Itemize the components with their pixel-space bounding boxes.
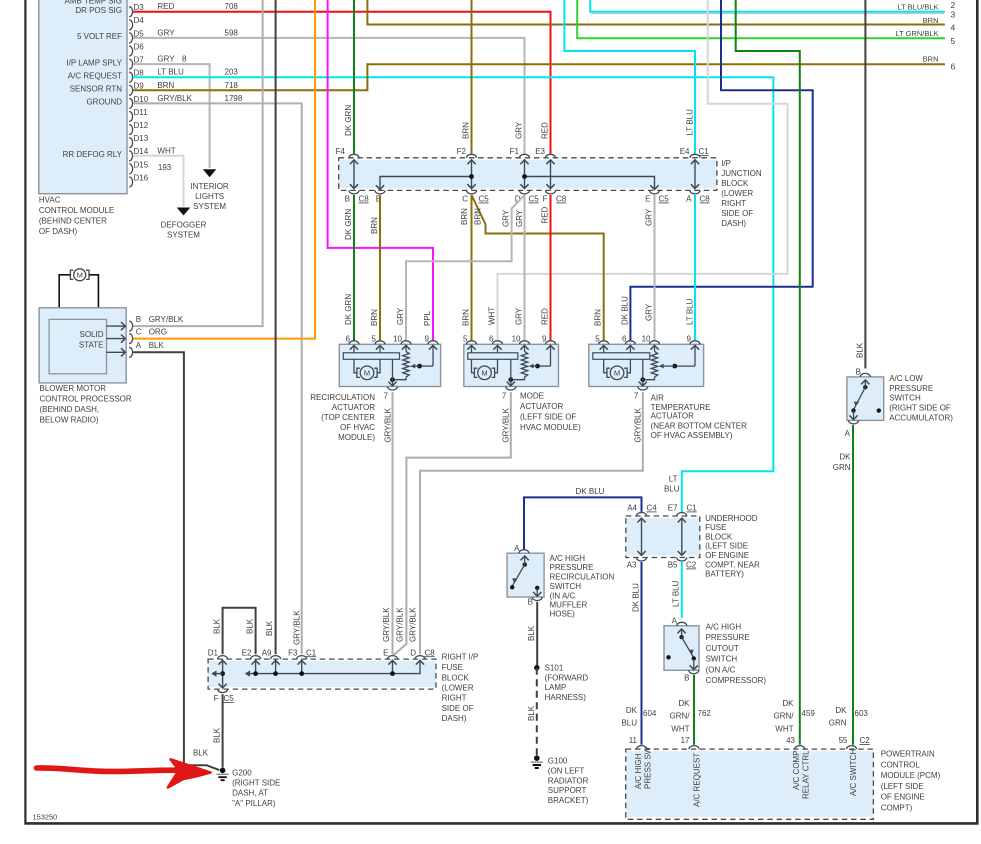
- svg-text:D4: D4: [134, 16, 145, 25]
- svg-text:LT GRN/BLK: LT GRN/BLK: [895, 29, 938, 38]
- svg-text:MODULE): MODULE): [338, 433, 375, 442]
- HVAC module caption: [39, 196, 114, 237]
- svg-text:INTERIOR: INTERIOR: [190, 182, 228, 191]
- svg-text:C1: C1: [687, 504, 698, 513]
- svg-text:9: 9: [425, 334, 430, 343]
- svg-text:PRESS SW: PRESS SW: [644, 746, 653, 789]
- svg-text:BLK: BLK: [212, 727, 221, 743]
- svg-text:CUTOUT: CUTOUT: [706, 644, 739, 653]
- wire BLK (D1 to E2 jumper): [212, 608, 255, 654]
- splice S101: [534, 665, 539, 670]
- svg-text:RIGHT: RIGHT: [442, 694, 467, 703]
- svg-text:A/C HIGH: A/C HIGH: [706, 623, 742, 632]
- svg-text:604: 604: [643, 709, 657, 718]
- defogger system label: [161, 221, 207, 240]
- svg-text:ORG: ORG: [149, 328, 167, 337]
- svg-text:DASH): DASH): [721, 219, 746, 228]
- underhood fuse block: [626, 513, 700, 562]
- svg-text:7: 7: [384, 392, 389, 401]
- ground G100: [531, 755, 543, 768]
- recirc switch pin labels: [514, 544, 533, 607]
- svg-text:6: 6: [951, 62, 956, 72]
- svg-text:GRY/BLK: GRY/BLK: [382, 607, 391, 642]
- svg-text:203: 203: [225, 68, 239, 77]
- svg-text:LT BLU: LT BLU: [685, 109, 694, 136]
- svg-text:D6: D6: [134, 42, 145, 51]
- svg-text:(RIGHT SIDE OF: (RIGHT SIDE OF: [889, 404, 951, 413]
- svg-text:GRY/BLK: GRY/BLK: [383, 407, 392, 442]
- svg-text:RADIATOR: RADIATOR: [548, 777, 589, 786]
- svg-text:B5: B5: [668, 561, 678, 570]
- wire BLK (fuse block F-C5 to ground G200): [212, 694, 222, 767]
- svg-text:WHT: WHT: [157, 146, 175, 155]
- svg-text:UNDERHOOD: UNDERHOOD: [705, 514, 758, 523]
- svg-text:C8: C8: [556, 195, 567, 204]
- svg-text:DK GRN: DK GRN: [344, 209, 353, 240]
- svg-text:M: M: [77, 271, 83, 280]
- svg-text:F3: F3: [288, 648, 298, 657]
- svg-text:A3: A3: [627, 561, 637, 570]
- svg-text:7: 7: [502, 392, 507, 401]
- svg-text:D13: D13: [134, 134, 149, 143]
- fuse block top pin labels: [208, 648, 436, 657]
- svg-text:GRY: GRY: [157, 28, 175, 37]
- svg-text:1798: 1798: [225, 94, 243, 103]
- svg-text:BRN: BRN: [594, 309, 603, 326]
- svg-text:DK: DK: [626, 706, 638, 715]
- G100 caption: [548, 757, 589, 806]
- svg-text:STATE: STATE: [79, 340, 104, 349]
- svg-text:DR POS SIG: DR POS SIG: [75, 6, 122, 15]
- interior lights system label: [190, 182, 228, 211]
- svg-text:SIDE OF: SIDE OF: [442, 704, 474, 713]
- svg-text:PRESSURE: PRESSURE: [550, 563, 594, 572]
- wire DK BLU (top to air temp actuator pin 6): [620, 0, 812, 341]
- svg-text:GRY: GRY: [514, 307, 523, 325]
- svg-text:HARNESS): HARNESS): [545, 693, 587, 702]
- svg-text:GRY: GRY: [644, 208, 653, 226]
- svg-text:F4: F4: [336, 147, 346, 156]
- blower processor caption: [40, 384, 132, 425]
- svg-text:55: 55: [839, 736, 848, 745]
- svg-text:2: 2: [951, 0, 956, 10]
- junction block bottom pin labels: [345, 195, 711, 204]
- PCM caption: [881, 750, 941, 813]
- svg-text:M: M: [481, 369, 487, 378]
- svg-text:BLK: BLK: [855, 342, 864, 358]
- svg-text:C2: C2: [686, 561, 697, 570]
- svg-text:(BEHIND DASH,: (BEHIND DASH,: [40, 405, 100, 414]
- svg-text:M: M: [364, 369, 370, 378]
- right I/P fuse block: [208, 656, 436, 693]
- svg-text:C5: C5: [479, 195, 490, 204]
- svg-text:CONTROL: CONTROL: [881, 761, 921, 770]
- ground G200: [216, 768, 228, 781]
- wire DK GRN 603 (low pressure switch A to PCM pin 55): [833, 425, 853, 745]
- HVAC control module U1 (connector block): [39, 0, 127, 194]
- svg-text:BRACKET): BRACKET): [548, 796, 589, 805]
- blower motor M1: [59, 269, 98, 320]
- junction block caption: [721, 159, 762, 228]
- low pressure switch pin labels: [845, 368, 861, 439]
- svg-text:D11: D11: [134, 108, 149, 117]
- svg-text:9: 9: [542, 334, 547, 343]
- svg-text:BRN: BRN: [462, 122, 471, 139]
- svg-text:459: 459: [802, 709, 816, 718]
- HVAC connector pins D3-D16: [129, 3, 149, 187]
- svg-text:D1: D1: [208, 648, 219, 657]
- svg-text:GRY: GRY: [502, 209, 511, 227]
- PCM pin labels: [629, 736, 871, 745]
- svg-text:A: A: [672, 617, 678, 626]
- svg-text:A/C SWITCH: A/C SWITCH: [849, 749, 858, 796]
- svg-text:LT: LT: [669, 474, 678, 483]
- svg-text:AMB TEMP SIG: AMB TEMP SIG: [65, 0, 123, 6]
- svg-text:SUPPORT: SUPPORT: [548, 786, 587, 795]
- svg-text:HOSE): HOSE): [550, 610, 576, 619]
- svg-text:C8: C8: [700, 195, 711, 204]
- svg-text:OF DASH): OF DASH): [39, 227, 78, 236]
- svg-text:GROUND: GROUND: [86, 98, 122, 107]
- svg-text:43: 43: [786, 736, 795, 745]
- svg-text:MODE: MODE: [520, 392, 544, 401]
- wire BRN (C-C5 to air temp pin 5): [472, 195, 604, 341]
- svg-text:DK: DK: [782, 699, 794, 708]
- svg-text:GRY/BLK: GRY/BLK: [157, 94, 192, 103]
- wire DK GRN 762 (cutout switch B to PCM pin 17): [693, 675, 695, 745]
- svg-text:RIGHT I/P: RIGHT I/P: [442, 652, 479, 661]
- wire GRY (E-C5 to air temp pin 10): [644, 195, 654, 341]
- svg-text:10: 10: [642, 334, 651, 343]
- A/C high pressure recirculation switch S1: [507, 550, 544, 601]
- svg-text:RELAY CTRL: RELAY CTRL: [801, 750, 810, 799]
- wire BRN (top to junction block F2): [462, 0, 472, 154]
- svg-text:D12: D12: [134, 121, 149, 130]
- svg-text:17: 17: [681, 736, 690, 745]
- svg-text:GRY: GRY: [157, 55, 175, 64]
- svg-text:COMPT, NEAR: COMPT, NEAR: [705, 560, 760, 569]
- blower processor pin labels: [136, 315, 184, 350]
- wire BLK (blower A to G200): [133, 352, 219, 770]
- svg-text:WHT: WHT: [488, 307, 497, 325]
- svg-text:PRESSURE: PRESSURE: [706, 633, 750, 642]
- svg-text:BLOCK: BLOCK: [721, 179, 749, 188]
- svg-text:SWITCH: SWITCH: [550, 582, 582, 591]
- svg-text:(LEFT SIDE: (LEFT SIDE: [705, 542, 748, 551]
- svg-text:CONTROL MODULE: CONTROL MODULE: [39, 206, 114, 215]
- svg-text:193: 193: [158, 163, 172, 172]
- svg-text:3: 3: [951, 10, 956, 20]
- svg-text:DEFOGGER: DEFOGGER: [161, 221, 207, 230]
- svg-text:RR DEFOG RLY: RR DEFOG RLY: [63, 150, 123, 159]
- air temperature actuator (motor + potentiometer): [589, 334, 704, 400]
- fuse block caption: [442, 652, 479, 723]
- svg-text:SYSTEM: SYSTEM: [167, 230, 200, 239]
- svg-text:SWITCH: SWITCH: [706, 655, 738, 664]
- svg-text:GRY/BLK: GRY/BLK: [502, 407, 511, 442]
- svg-text:A/C LOW: A/C LOW: [889, 374, 923, 383]
- svg-text:HVAC: HVAC: [39, 196, 61, 205]
- svg-text:598: 598: [225, 28, 239, 37]
- label GRY above F1: [514, 121, 523, 139]
- svg-text:BRN: BRN: [370, 309, 379, 326]
- right edge wire labels and line numbers: [895, 0, 955, 72]
- svg-text:762: 762: [698, 709, 712, 718]
- wire WHT 193 (D14 to defogger): [133, 146, 190, 215]
- svg-text:LAMP: LAMP: [545, 683, 567, 692]
- svg-text:(ON LEFT: (ON LEFT: [548, 767, 585, 776]
- svg-text:FUSE: FUSE: [442, 663, 463, 672]
- svg-text:GRN: GRN: [829, 719, 847, 728]
- svg-text:DK BLU: DK BLU: [576, 487, 605, 496]
- svg-text:10: 10: [512, 334, 521, 343]
- svg-text:6: 6: [346, 334, 351, 343]
- svg-text:BRN: BRN: [460, 208, 469, 225]
- svg-text:6: 6: [489, 334, 494, 343]
- svg-text:BLK: BLK: [149, 341, 165, 350]
- mode actuator (motor + potentiometer): [463, 334, 558, 400]
- svg-text:"A" PILLAR): "A" PILLAR): [232, 799, 276, 808]
- svg-text:DASH, AT: DASH, AT: [232, 789, 268, 798]
- svg-text:5 VOLT REF: 5 VOLT REF: [77, 32, 122, 41]
- svg-text:A4: A4: [627, 504, 637, 513]
- svg-text:DK: DK: [835, 706, 847, 715]
- svg-text:SOLID: SOLID: [79, 330, 103, 339]
- svg-text:COMPRESSOR): COMPRESSOR): [706, 676, 767, 685]
- blower motor control processor (solid state module): [39, 308, 132, 383]
- svg-text:BLK: BLK: [245, 618, 254, 634]
- svg-text:C8: C8: [359, 195, 370, 204]
- wire GRY/BLK (blower B to top): [133, 0, 263, 326]
- wire BRN (top to right edge 4): [367, 0, 945, 25]
- svg-text:153250: 153250: [33, 813, 58, 822]
- svg-text:ACTUATOR: ACTUATOR: [651, 412, 694, 421]
- svg-text:OF HVAC ASSEMBLY): OF HVAC ASSEMBLY): [651, 431, 733, 440]
- powertrain control module (PCM): [626, 746, 874, 820]
- svg-text:DK BLU: DK BLU: [620, 296, 629, 325]
- svg-text:A/C REQUEST: A/C REQUEST: [692, 753, 701, 807]
- svg-text:E: E: [645, 195, 650, 204]
- svg-text:B: B: [684, 674, 689, 683]
- svg-text:GRN: GRN: [833, 463, 851, 472]
- svg-text:SIDE OF: SIDE OF: [721, 209, 753, 218]
- svg-text:BLOCK: BLOCK: [442, 673, 470, 682]
- label RED above E3: [541, 122, 550, 139]
- air temperature actuator caption: [651, 393, 748, 439]
- label LT BLU above E7: [664, 474, 680, 493]
- svg-text:DK GRN: DK GRN: [344, 294, 353, 325]
- svg-text:BRN: BRN: [370, 217, 379, 234]
- svg-text:FUSE: FUSE: [705, 523, 726, 532]
- svg-text:C1: C1: [699, 147, 710, 156]
- svg-text:F2: F2: [457, 147, 467, 156]
- svg-text:BRN: BRN: [157, 81, 174, 90]
- wire DK GRN/WHT 459 (top to PCM pin 43): [736, 0, 800, 745]
- svg-text:BLU: BLU: [621, 719, 637, 728]
- svg-text:C5: C5: [659, 195, 670, 204]
- svg-text:OF ENGINE: OF ENGINE: [881, 792, 925, 801]
- svg-text:A: A: [514, 544, 520, 553]
- svg-text:6: 6: [622, 334, 627, 343]
- G200 caption: [232, 768, 280, 808]
- svg-text:7: 7: [634, 392, 639, 401]
- svg-text:C: C: [462, 195, 468, 204]
- svg-text:M: M: [614, 369, 620, 378]
- svg-text:MODULE (PCM): MODULE (PCM): [881, 771, 941, 780]
- svg-text:MUFFLER: MUFFLER: [550, 600, 588, 609]
- svg-text:ACTUATOR: ACTUATOR: [332, 403, 375, 412]
- wire DK BLU (A3 to PCM pin 11): [631, 562, 641, 745]
- svg-text:C5: C5: [529, 195, 540, 204]
- svg-text:RECIRCULATION: RECIRCULATION: [310, 393, 375, 402]
- recirculation actuator caption: [310, 393, 375, 442]
- wire DK BLU (recirc switch A to underhood A4): [524, 487, 642, 549]
- svg-text:GRY/BLK: GRY/BLK: [149, 315, 184, 324]
- svg-text:G200: G200: [232, 768, 252, 777]
- svg-text:E7: E7: [668, 504, 678, 513]
- svg-text:E4: E4: [680, 147, 690, 156]
- svg-text:RED: RED: [541, 122, 550, 139]
- PCM wire labels: [621, 699, 868, 733]
- svg-text:A: A: [686, 195, 692, 204]
- wire GRY 8 (D7 to interior lights): [133, 55, 216, 178]
- svg-text:ACCUMULATOR): ACCUMULATOR): [889, 413, 953, 422]
- diagram id label 153250: [33, 813, 58, 822]
- wire LT BLU (top to junction block E4): [564, 0, 695, 154]
- PCM internal signal labels (rotated): [634, 746, 858, 807]
- svg-text:RECIRCULATION: RECIRCULATION: [550, 573, 615, 582]
- svg-text:C8: C8: [425, 648, 436, 657]
- recirculation actuator (motor + potentiometer): [339, 334, 440, 400]
- svg-text:WHT: WHT: [775, 725, 793, 734]
- wire LT BLU (B5 to cutout switch A): [672, 562, 682, 618]
- svg-text:E2: E2: [242, 648, 252, 657]
- mode actuator caption: [520, 392, 581, 433]
- wire GRY/BLK 1798 (D10 to fuse block F3): [133, 94, 302, 654]
- svg-text:718: 718: [225, 81, 239, 90]
- svg-text:E: E: [383, 648, 388, 657]
- svg-text:C: C: [136, 328, 142, 337]
- svg-text:B: B: [136, 315, 141, 324]
- svg-text:LT BLU/BLK: LT BLU/BLK: [898, 2, 939, 11]
- svg-text:JUNCTION: JUNCTION: [721, 169, 762, 178]
- svg-text:G100: G100: [548, 757, 568, 766]
- wire PPL (top to recirculation actuator pin 9): [328, 0, 433, 341]
- svg-text:D15: D15: [134, 160, 149, 169]
- svg-text:GRY: GRY: [396, 307, 405, 325]
- wire GRY (D-C5 to recirc pin 10): [396, 195, 525, 341]
- svg-text:AIR: AIR: [651, 393, 665, 402]
- svg-text:A/C HIGH: A/C HIGH: [634, 753, 643, 789]
- cutout switch pin labels: [672, 617, 690, 683]
- svg-text:A/C COMP: A/C COMP: [792, 750, 801, 790]
- svg-text:A/C REQUEST: A/C REQUEST: [68, 71, 122, 80]
- S101 caption: [545, 664, 589, 702]
- HVAC module signal labels: [63, 0, 123, 159]
- wire ORG (blower C to top): [133, 0, 315, 339]
- svg-text:C4: C4: [647, 504, 658, 513]
- cutout switch caption: [706, 623, 767, 685]
- svg-text:LIGHTS: LIGHTS: [195, 192, 224, 201]
- svg-text:COMPT): COMPT): [881, 803, 913, 812]
- svg-text:BLK: BLK: [212, 618, 221, 634]
- svg-text:SYSTEM: SYSTEM: [193, 202, 226, 211]
- svg-text:E3: E3: [535, 147, 545, 156]
- svg-text:LT BLU: LT BLU: [672, 580, 681, 607]
- svg-text:11: 11: [629, 736, 638, 745]
- svg-text:RIGHT: RIGHT: [721, 199, 746, 208]
- svg-text:8: 8: [182, 55, 187, 64]
- svg-text:C2: C2: [860, 736, 871, 745]
- svg-text:DK BLU: DK BLU: [631, 583, 640, 612]
- svg-text:GRY: GRY: [644, 303, 653, 321]
- svg-text:A: A: [136, 341, 142, 350]
- wire LT BLU/BLK (top to right edge 3): [590, 0, 945, 14]
- A/C high pressure cutout switch S2: [664, 622, 699, 674]
- svg-text:DK: DK: [839, 453, 851, 462]
- svg-text:9: 9: [687, 334, 692, 343]
- svg-text:(RIGHT SIDE: (RIGHT SIDE: [232, 778, 280, 787]
- wire BLK dashed (S101 to ground G100): [527, 668, 537, 756]
- svg-text:5: 5: [595, 334, 600, 343]
- svg-text:BLK: BLK: [527, 705, 536, 721]
- svg-text:BLOWER MOTOR: BLOWER MOTOR: [40, 384, 107, 393]
- underhood fuse block pin labels: [627, 504, 698, 570]
- wire GRY (D-C5 to mode pin 10): [514, 195, 524, 341]
- svg-text:4: 4: [951, 23, 956, 33]
- wire GRY/BLK (mode pin 7 to fuse block E): [393, 392, 511, 656]
- svg-text:DK GRN: DK GRN: [344, 105, 353, 136]
- svg-text:5: 5: [951, 36, 956, 46]
- svg-text:RED: RED: [541, 308, 550, 325]
- wire LT BLU 203 (D8 to underhood fuse block E7): [133, 68, 773, 513]
- wire RED (F-C8 to mode pin 9): [541, 195, 551, 341]
- svg-text:BRN: BRN: [461, 309, 470, 326]
- svg-text:POWERTRAIN: POWERTRAIN: [881, 750, 935, 759]
- svg-text:(LOWER: (LOWER: [442, 683, 474, 692]
- svg-text:5: 5: [463, 334, 468, 343]
- svg-text:BLOCK: BLOCK: [705, 533, 733, 542]
- svg-text:BATTERY): BATTERY): [705, 569, 744, 578]
- svg-text:LT BLU: LT BLU: [157, 68, 184, 77]
- svg-text:BLK: BLK: [193, 749, 209, 758]
- svg-text:B: B: [856, 368, 861, 377]
- wire LT BLU (A-C8 to air temp pin 9): [685, 195, 695, 341]
- svg-text:(LEFT SIDE: (LEFT SIDE: [881, 782, 924, 791]
- svg-text:C5: C5: [224, 694, 235, 703]
- svg-text:GRY: GRY: [514, 121, 523, 139]
- svg-text:HVAC MODULE): HVAC MODULE): [520, 423, 581, 432]
- wire WHT (top to mode actuator pin 6): [488, 0, 788, 341]
- svg-text:(FORWARD: (FORWARD: [545, 673, 589, 682]
- svg-text:BRN: BRN: [923, 55, 939, 64]
- svg-text:PPL: PPL: [423, 310, 432, 326]
- svg-text:(BEHIND CENTER: (BEHIND CENTER: [39, 217, 107, 226]
- svg-text:A9: A9: [262, 648, 272, 657]
- svg-text:SENSOR RTN: SENSOR RTN: [70, 85, 123, 94]
- wire LT GRN/BLK (top to right edge 5): [577, 0, 945, 38]
- wire DK GRN (top to junction block F4): [344, 0, 354, 154]
- svg-text:(ON A/C: (ON A/C: [706, 665, 736, 674]
- fuse block bottom pin label F C5: [214, 694, 235, 703]
- svg-text:(IN A/C: (IN A/C: [550, 591, 576, 600]
- junction block top pin labels: [336, 147, 710, 156]
- svg-text:B: B: [528, 598, 533, 607]
- svg-text:D16: D16: [134, 173, 149, 182]
- svg-text:BRN: BRN: [923, 16, 939, 25]
- wire BRN (B to recirc pin 5): [370, 195, 380, 341]
- wire BRN 718 (D9 to right edge 6): [133, 64, 945, 90]
